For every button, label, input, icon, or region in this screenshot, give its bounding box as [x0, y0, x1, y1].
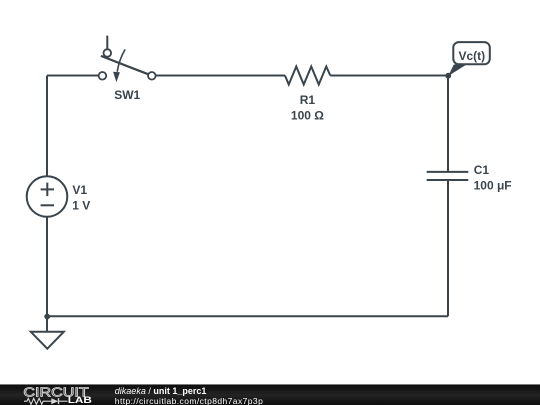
ground [31, 316, 64, 348]
svg-text:R1: R1 [300, 93, 316, 107]
logo diode triangle [51, 398, 58, 404]
node junction top-right [445, 73, 451, 79]
svg-text:LAB: LAB [68, 396, 93, 405]
svg-text:1 V: 1 V [72, 199, 90, 213]
voltage source V1 [27, 176, 68, 217]
label Vc(t) callout [448, 42, 490, 76]
wire between switch and resistor [156, 75, 285, 77]
svg-text:100 Ω: 100 Ω [291, 109, 324, 123]
footer url line [115, 397, 263, 405]
capacitor C1 [427, 172, 469, 180]
wire right vertical lower [447, 180, 449, 316]
wire left vertical upper [46, 76, 48, 177]
footer bar [0, 384, 540, 405]
wire left vertical lower [46, 217, 48, 316]
logo wire to LAB [59, 400, 68, 402]
switch SW1 [99, 36, 156, 83]
logo resistor squiggle [24, 398, 52, 404]
wire right vertical upper [447, 76, 449, 172]
wire resistor to top-right corner [330, 75, 448, 77]
footer credit line [115, 387, 263, 397]
svg-text:SW1: SW1 [114, 88, 140, 102]
svg-text:V1: V1 [72, 183, 87, 197]
svg-text:Vc(t): Vc(t) [458, 49, 485, 63]
node junction ground [44, 314, 50, 320]
wire bottom horizontal [47, 315, 448, 317]
svg-text:C1: C1 [474, 163, 490, 177]
wire top-left horizontal [47, 75, 99, 77]
logo diode cathode bar [58, 398, 60, 404]
svg-text:100 μF: 100 μF [474, 179, 512, 193]
resistor R1 [285, 67, 330, 85]
footer logo CIRCUIT LAB [0, 384, 110, 405]
